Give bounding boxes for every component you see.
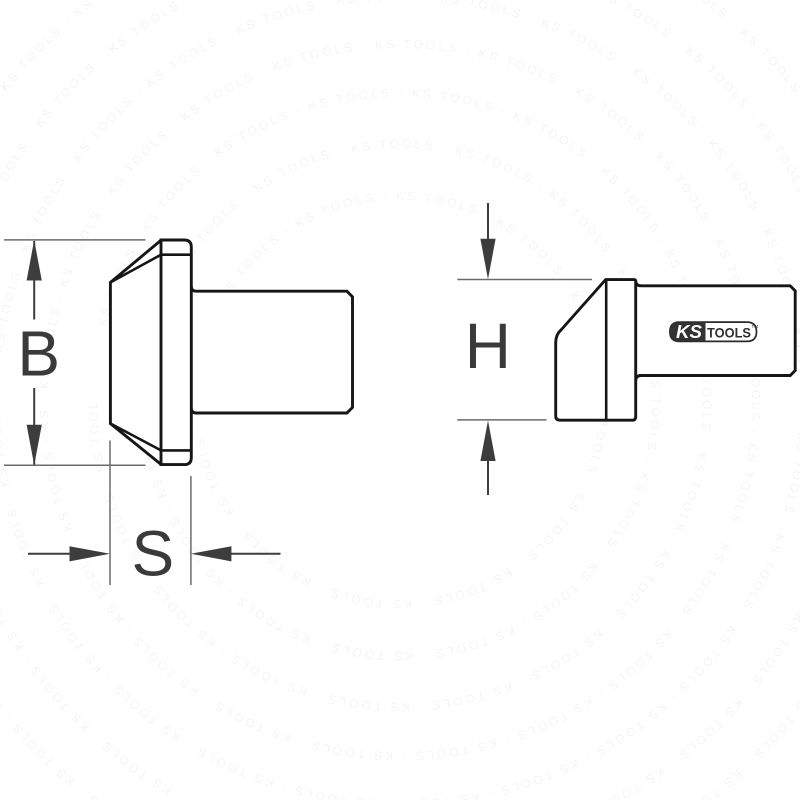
KS TOOLS logo pill: [670, 322, 758, 342]
dimension H bottom line: [487, 460, 489, 495]
logo dark KS field: [670, 322, 706, 341]
dimension S right extension line: [190, 476, 192, 585]
dimension H bottom extension line: [457, 419, 546, 421]
svg-text:S: S: [131, 518, 174, 590]
left view cone chamfer edge top: [110, 255, 161, 283]
dimension B top extension line: [4, 239, 146, 241]
dimension S arrow left: [191, 546, 232, 561]
dimension B line upper: [33, 241, 35, 320]
dimension S left line: [28, 553, 71, 555]
dimension B arrow up: [27, 240, 42, 281]
flange chamfer line top: [161, 253, 191, 256]
right view shank: [636, 281, 796, 381]
dimension S arrow right: [70, 546, 111, 561]
dimension H top extension line: [457, 279, 592, 281]
left view shank: [191, 286, 352, 413]
dimension B bottom extension line: [4, 464, 146, 466]
left view cone chamfer edge bottom: [110, 424, 161, 451]
svg-text:KS: KS: [676, 322, 702, 342]
dimension B arrow down: [27, 425, 42, 466]
right view wedge and plate: [556, 280, 636, 421]
dimension H arrow down: [480, 239, 495, 279]
svg-text:H: H: [465, 310, 511, 382]
left view flange plate: [161, 240, 191, 465]
dimension S left extension line: [109, 441, 111, 586]
dimension H top line: [487, 203, 489, 242]
svg-text:TM: TM: [752, 324, 759, 329]
flange chamfer line bottom: [161, 449, 191, 452]
left view cone: [110, 240, 161, 464]
dimension S right line: [231, 553, 281, 555]
dimension B line lower: [33, 388, 35, 465]
dimension H arrow up: [480, 421, 495, 462]
svg-text:TOOLS: TOOLS: [707, 325, 751, 341]
right view cone/plate division line: [605, 281, 608, 421]
svg-text:B: B: [17, 318, 60, 390]
